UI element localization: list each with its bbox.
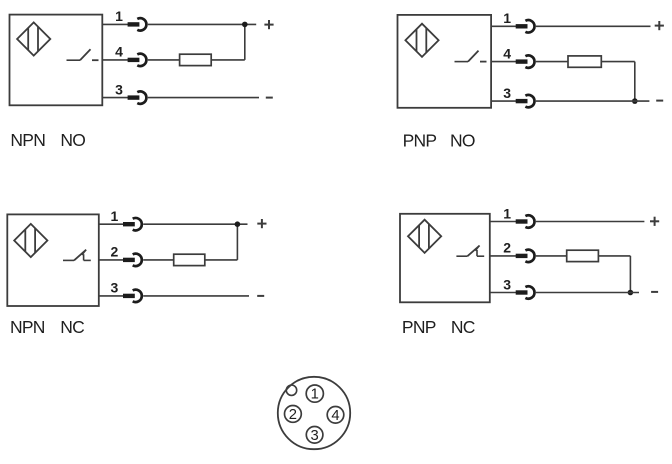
wire pin 3 to - (PNP NO) [536,100,650,102]
svg-text:NPN: NPN [10,317,45,337]
svg-text:3: 3 [503,85,511,101]
svg-text:PNP: PNP [403,131,437,151]
wire pin 3 stub (NPN NC) [99,295,124,297]
wire pin 1 stub (NPN NC) [99,223,124,225]
NO contact switch (NPN NO) [67,49,99,60]
wire resistor to node (PNP NO) [601,61,635,63]
sensor body (NPN NO) [10,15,103,106]
NC contact switch (PNP NC) [456,246,484,257]
svg-text:PNP: PNP [402,317,436,337]
svg-text:3: 3 [310,428,318,444]
- terminal (PNP NC) [651,291,658,293]
M12 connector face outline [278,377,350,449]
connector pin 2 [285,406,302,424]
inductive sensor symbol (NPN NC) [14,224,47,257]
plug symbol pin 1 (PNP NC) [516,215,535,227]
load resistor (NPN NO) [148,59,180,61]
wire pin 4 stub (NPN NO) [102,59,128,61]
svg-text:4: 4 [331,408,339,424]
wire pin 3 stub (NPN NO) [102,97,128,99]
svg-text:NO: NO [60,130,85,150]
wire resistor to node (NPN NO) [211,59,245,61]
wire node vertical down (PNP NO) [634,62,636,102]
+ terminal (PNP NO) [655,21,664,30]
wire pin 1 stub (PNP NO) [491,25,517,27]
+ terminal (PNP NC) [650,217,659,226]
junction dot (PNP NO) [632,98,638,104]
svg-text:1: 1 [311,387,319,403]
wire pin 2 stub (PNP NC) [490,255,517,257]
junction dot (PNP NC) [628,290,634,296]
load resistor (NPN NC) [143,259,174,261]
wire resistor to node (NPN NC) [205,259,238,261]
wire pin 4 stub (PNP NO) [491,61,517,63]
wire pin 1 to + (PNP NO) [536,25,651,27]
svg-text:2: 2 [289,407,297,423]
wire pin 3 to - (NPN NC) [143,295,249,297]
svg-text:4: 4 [503,45,511,61]
wire pin 3 stub (PNP NO) [491,100,517,102]
- terminal (NPN NO) [266,97,273,99]
svg-text:2: 2 [111,244,119,260]
svg-text:1: 1 [111,208,119,224]
plug symbol pin 1 (NPN NC) [123,218,142,230]
plug symbol pin 3 (NPN NC) [123,290,142,302]
wire node vertical up (NPN NC) [236,224,238,260]
wire resistor to node (PNP NC) [598,255,630,257]
- terminal (PNP NO) [656,100,663,102]
connector pin 3 [306,427,323,444]
svg-text:NC: NC [451,317,475,337]
sensor body (NPN NC) [7,214,99,306]
plug symbol pin 2 (NPN NC) [123,254,142,266]
svg-text:NPN: NPN [10,130,45,150]
wire pin 3 to - (PNP NC) [536,292,639,294]
svg-text:3: 3 [111,280,119,296]
svg-text:2: 2 [503,240,511,256]
plug symbol pin 4 (PNP NO) [516,55,535,67]
svg-text:4: 4 [115,44,123,60]
connector pin 1 [306,385,323,403]
NO contact switch (PNP NO) [455,51,487,62]
inductive sensor symbol (NPN NO) [17,22,50,55]
wire pin 3 stub (PNP NC) [490,292,517,294]
plug symbol pin 3 (PNP NC) [516,286,535,298]
junction dot (NPN NC) [235,221,241,227]
wire pin 1 stub (NPN NO) [102,23,128,25]
NC contact switch (NPN NC) [63,250,91,261]
sensor body (PNP NC) [400,214,490,302]
inductive sensor symbol (PNP NC) [408,220,441,253]
wire pin 1 to + (PNP NC) [536,221,645,223]
svg-text:3: 3 [115,81,123,97]
wire node vertical down (PNP NC) [629,256,631,293]
+ terminal (NPN NC) [257,219,266,228]
svg-text:NO: NO [450,131,475,151]
wire pin 2 stub (NPN NC) [99,259,124,261]
plug symbol pin 3 (NPN NO) [128,91,147,103]
wire node vertical up (NPN NO) [244,24,246,60]
svg-text:NC: NC [60,317,84,337]
connector pin 4 [327,407,344,424]
plug symbol pin 1 (PNP NO) [516,20,535,32]
plug symbol pin 4 (NPN NO) [128,54,147,66]
svg-text:1: 1 [503,205,511,221]
plug symbol pin 1 (NPN NO) [128,18,147,30]
inductive sensor symbol (PNP NO) [405,24,438,57]
wire pin 1 to + (NPN NC) [143,223,247,225]
wire pin 1 stub (PNP NC) [490,221,517,223]
svg-text:3: 3 [503,276,511,292]
- terminal (NPN NC) [257,295,264,297]
keying notch [286,385,296,395]
svg-text:1: 1 [503,10,511,26]
+ terminal (NPN NO) [264,20,273,29]
load resistor (PNP NO) [536,61,568,63]
svg-text:1: 1 [115,8,123,24]
sensor body (PNP NO) [398,15,492,108]
wire pin 1 to + (NPN NO) [148,23,256,25]
plug symbol pin 2 (PNP NC) [516,250,535,262]
load resistor (PNP NC) [536,255,567,257]
wire pin 3 to - (NPN NO) [148,97,259,99]
plug symbol pin 3 (PNP NO) [516,95,535,107]
junction dot (NPN NO) [242,22,248,28]
